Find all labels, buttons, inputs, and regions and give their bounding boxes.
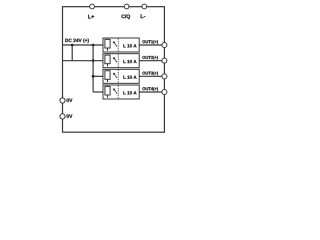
trip linkage dashed line F4 <box>117 85 119 98</box>
fuse element F3 <box>105 70 110 82</box>
node junction bus row 1 <box>92 44 95 47</box>
label L+ <box>88 15 94 19</box>
label DC 24V (+) <box>65 39 89 43</box>
label C/Q <box>121 14 130 19</box>
wire fuse F4 to OUT4 <box>139 91 162 93</box>
label OUT4(+) <box>142 87 158 91</box>
wire distribution bus vertical <box>92 45 94 92</box>
terminal OUT1(+) <box>162 43 167 48</box>
node junction bus row 3 <box>92 75 95 78</box>
fuse unit box F2 <box>103 54 139 68</box>
node junction bus row 2 <box>92 59 95 62</box>
trip arrow of fuse F3 <box>113 73 117 78</box>
terminal L- <box>142 4 147 9</box>
trip linkage dashed line F1 <box>117 38 119 51</box>
wire riser from DC rail to row2 rail <box>71 45 73 61</box>
fuse element F4 <box>105 86 110 98</box>
trip linkage dashed line F3 <box>117 70 119 83</box>
fuse unit box F3 <box>103 69 139 83</box>
terminal C/Q <box>124 4 129 9</box>
terminal L+ <box>90 4 95 9</box>
trip linkage dashed line F2 <box>117 54 119 67</box>
label OUT1(+) <box>142 40 158 44</box>
wire fuse F1 to OUT1 <box>139 44 162 46</box>
label 0V lower <box>67 114 73 118</box>
wire fuse F2 to OUT2 <box>139 60 162 62</box>
value label L 10 A of fuse F4 <box>123 91 136 94</box>
device outline frame <box>63 7 165 133</box>
wire fuse F3 to OUT3 <box>139 75 162 77</box>
wire feed to fuse F3 <box>93 75 103 77</box>
fuse element F1 <box>105 39 110 51</box>
value label L 10 A of fuse F2 <box>123 60 136 63</box>
fuse element F2 <box>105 54 110 66</box>
trip arrow of fuse F2 <box>113 57 117 62</box>
terminal 0V lower <box>60 114 65 119</box>
value label L 10 A of fuse F3 <box>123 76 136 79</box>
value label L 10 A of fuse F1 <box>123 44 136 47</box>
wire feed to fuse F1 <box>63 44 104 46</box>
label OUT2(+) <box>142 56 158 60</box>
terminal OUT2(+) <box>162 58 167 63</box>
trip arrow of fuse F1 <box>113 41 117 46</box>
label OUT3(+) <box>142 71 158 75</box>
terminal OUT4(+) <box>162 90 167 95</box>
wire feed to fuse F2 <box>63 60 104 62</box>
fuse unit box F4 <box>103 85 139 99</box>
wire feed to fuse F4 <box>93 91 103 93</box>
node junction riser on DC rail <box>71 44 74 47</box>
terminal OUT3(+) <box>162 74 167 79</box>
terminal 0V upper <box>60 98 65 103</box>
fuse unit box F1 <box>103 38 139 52</box>
label L- <box>141 14 146 18</box>
trip arrow of fuse F4 <box>113 88 117 93</box>
label 0V upper <box>67 99 73 103</box>
